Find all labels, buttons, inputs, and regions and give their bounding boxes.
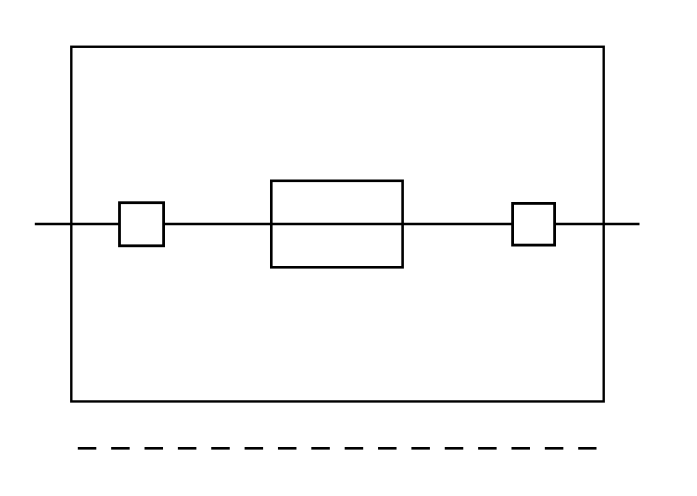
wire	[35, 223, 640, 226]
fuse body	[271, 181, 402, 267]
terminal clamp right	[513, 203, 555, 245]
mounting rail (dashed)	[78, 447, 597, 450]
terminal clamp left	[120, 203, 164, 246]
component body outline	[71, 47, 603, 402]
